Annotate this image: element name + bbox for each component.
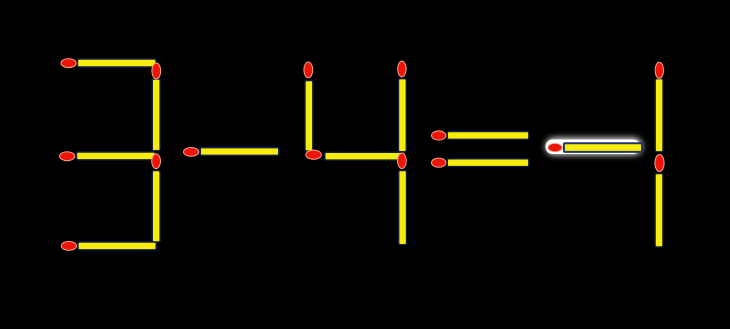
digit 3 : middle horizontal matchstick <box>60 152 156 161</box>
digit 3 : top-right vertical matchstick <box>152 63 161 151</box>
minus sign matchstick <box>184 148 279 157</box>
digit 4 : top-right vertical matchstick <box>398 61 407 152</box>
highlighted (moved) matchstick with white glow <box>546 138 643 154</box>
digit 3 : bottom horizontal matchstick <box>61 241 156 250</box>
digit 4 : bottom-right vertical matchstick <box>398 153 407 245</box>
digit 4 : middle horizontal matchstick <box>306 150 403 160</box>
digit 3 : bottom-right vertical matchstick <box>152 154 161 242</box>
equals sign : top horizontal matchstick <box>432 131 529 140</box>
digit 1 : bottom vertical matchstick <box>655 155 664 247</box>
equals sign : bottom horizontal matchstick <box>432 158 529 167</box>
digit 1 : top vertical matchstick <box>655 62 663 151</box>
digit 3 : top horizontal matchstick <box>61 59 156 68</box>
digit 4 : left vertical matchstick <box>304 62 313 151</box>
